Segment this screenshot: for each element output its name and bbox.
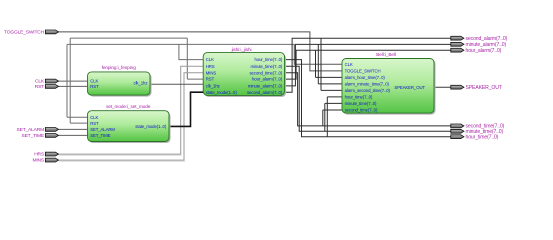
input port RST <box>45 85 58 89</box>
wire RST net: port to fenping.RST <box>58 85 87 87</box>
svg-text:second_alarm(7..0): second_alarm(7..0) <box>247 90 283 95</box>
svg-text:alarm_minute_time(7..0): alarm_minute_time(7..0) <box>345 82 390 87</box>
module set_mode U2 <box>88 111 170 142</box>
svg-text:state_mode(1..0): state_mode(1..0) <box>206 90 238 95</box>
module jishi U3 <box>203 53 284 96</box>
svg-text:SET_TIME: SET_TIME <box>22 133 45 139</box>
wire RST net top horizontal to jishi.RST <box>70 38 203 79</box>
wire CLK net top horizontal <box>67 43 294 45</box>
svg-text:alarm_hour_time(7..0): alarm_hour_time(7..0) <box>345 75 386 80</box>
svg-text:jishi:i_jishi: jishi:i_jishi <box>231 47 252 52</box>
svg-text:SET_ALARM: SET_ALARM <box>90 127 115 132</box>
input port SET_TIME <box>45 134 58 138</box>
wire CLK net vertical branch to set_mode.CLK <box>67 44 88 117</box>
svg-text:RST: RST <box>206 77 215 82</box>
wire HRS net shadow <box>60 154 182 156</box>
svg-text:minute_time(7..0): minute_time(7..0) <box>250 64 282 69</box>
module Bell U4 <box>342 59 434 114</box>
wire MINS net <box>58 73 203 160</box>
svg-text:MINS: MINS <box>206 70 217 75</box>
wire second_time net <box>285 73 451 126</box>
svg-text:SPEAKER_OUT: SPEAKER_OUT <box>394 85 425 90</box>
svg-text:CLK: CLK <box>206 57 214 62</box>
module fenping U1 <box>88 72 151 95</box>
module set_mode U2 shadow <box>89 112 171 143</box>
svg-text:TOGGLE_SWITCH: TOGGLE_SWITCH <box>4 30 45 36</box>
svg-text:hour_time(7..0): hour_time(7..0) <box>345 95 373 100</box>
input port MINS <box>45 158 58 162</box>
svg-text:fenping:i_fenping: fenping:i_fenping <box>102 65 137 70</box>
output port second_alarm(7..0) <box>451 36 464 40</box>
output port minute_time(7..0) <box>451 129 464 133</box>
module jishi U3 shadow <box>205 54 286 97</box>
svg-text:state_mode(1..0): state_mode(1..0) <box>135 124 167 129</box>
wire minute_time net <box>285 66 451 131</box>
svg-text:RST: RST <box>90 121 99 126</box>
module fenping U1 shadow <box>89 73 152 96</box>
output port minute_alarm(7..0) <box>451 42 464 46</box>
svg-text:RST: RST <box>35 84 44 90</box>
svg-text:hour_alarm(7..0): hour_alarm(7..0) <box>252 77 283 82</box>
svg-text:second_time(7..0): second_time(7..0) <box>249 70 282 75</box>
wire minute_alarm net <box>285 44 451 86</box>
wire HRS net <box>58 66 203 154</box>
wire CLK net drop to Bell.CLK <box>294 44 342 64</box>
svg-text:set_mode:i_set_mode: set_mode:i_set_mode <box>106 104 151 109</box>
output port hour_alarm(7..0) <box>451 48 464 52</box>
svg-text:MINS: MINS <box>32 158 44 164</box>
svg-text:CLK: CLK <box>90 79 98 84</box>
input port CLK <box>45 79 58 83</box>
svg-text:clk_1hz: clk_1hz <box>134 81 148 86</box>
module Bell U4 shadow <box>344 60 436 115</box>
svg-text:hour_alarm(7..0): hour_alarm(7..0) <box>466 48 502 54</box>
wire TOGGLE_SWITCH net <box>58 32 342 71</box>
output port hour_time(7..0) <box>451 135 464 139</box>
output port SPEAKER_OUT <box>451 85 464 89</box>
svg-text:hour_time(7..0): hour_time(7..0) <box>466 134 499 140</box>
wire SET_TIME net <box>58 134 87 136</box>
input port HRS <box>45 152 58 156</box>
svg-text:HRS: HRS <box>206 64 215 69</box>
svg-text:CLK: CLK <box>90 115 98 120</box>
svg-text:CLK: CLK <box>35 79 45 85</box>
svg-text:CLK: CLK <box>345 62 353 67</box>
wire MINS net shadow <box>60 160 186 162</box>
svg-text:SET_TIME: SET_TIME <box>90 133 110 138</box>
wire CLK net drop to jishi.CLK <box>179 44 203 59</box>
input port SET_ALARM <box>45 127 58 131</box>
wire CLK net: port to fenping.CLK <box>58 80 87 82</box>
svg-text:RST: RST <box>90 84 99 89</box>
svg-text:alarm_second_time(7..0): alarm_second_time(7..0) <box>345 88 391 93</box>
svg-text:minute_alarm(7..0): minute_alarm(7..0) <box>248 84 283 89</box>
wire SPEAKER_OUT net <box>434 86 451 88</box>
svg-text:hour_time(7..0): hour_time(7..0) <box>255 57 283 62</box>
svg-text:Bell:i_Bell: Bell:i_Bell <box>376 52 396 57</box>
svg-text:minute_time(7..0): minute_time(7..0) <box>345 101 377 106</box>
wire hour_alarm net: jishi out, up to port, branch to Bell <box>285 50 451 79</box>
svg-text:SPEAKER_OUT: SPEAKER_OUT <box>466 85 502 91</box>
wire second_alarm net <box>285 38 451 92</box>
wire RST net vertical branch to set_mode.RST <box>70 38 87 123</box>
svg-text:TOGGLE_SWITCH: TOGGLE_SWITCH <box>345 69 381 74</box>
wire hour_time net: jishi out, down to port, branch to Bell <box>285 60 451 137</box>
wire SET_ALARM net <box>58 128 87 130</box>
wire clk_1hz net: fenping out to jishi.clk_1hz <box>150 83 203 85</box>
svg-text:second_time(7..0): second_time(7..0) <box>345 108 378 113</box>
output port second_time(7..0) <box>451 124 464 128</box>
input port TOGGLE_SWITCH <box>45 30 58 34</box>
svg-text:clk_1hz: clk_1hz <box>206 84 220 89</box>
svg-text:HRS: HRS <box>34 152 45 158</box>
svg-text:SET_ALARM: SET_ALARM <box>17 127 45 133</box>
wire state_mode bus: set_mode out to jishi.state_mode <box>169 92 203 126</box>
svg-text:second_alarm(7..0): second_alarm(7..0) <box>466 36 508 42</box>
